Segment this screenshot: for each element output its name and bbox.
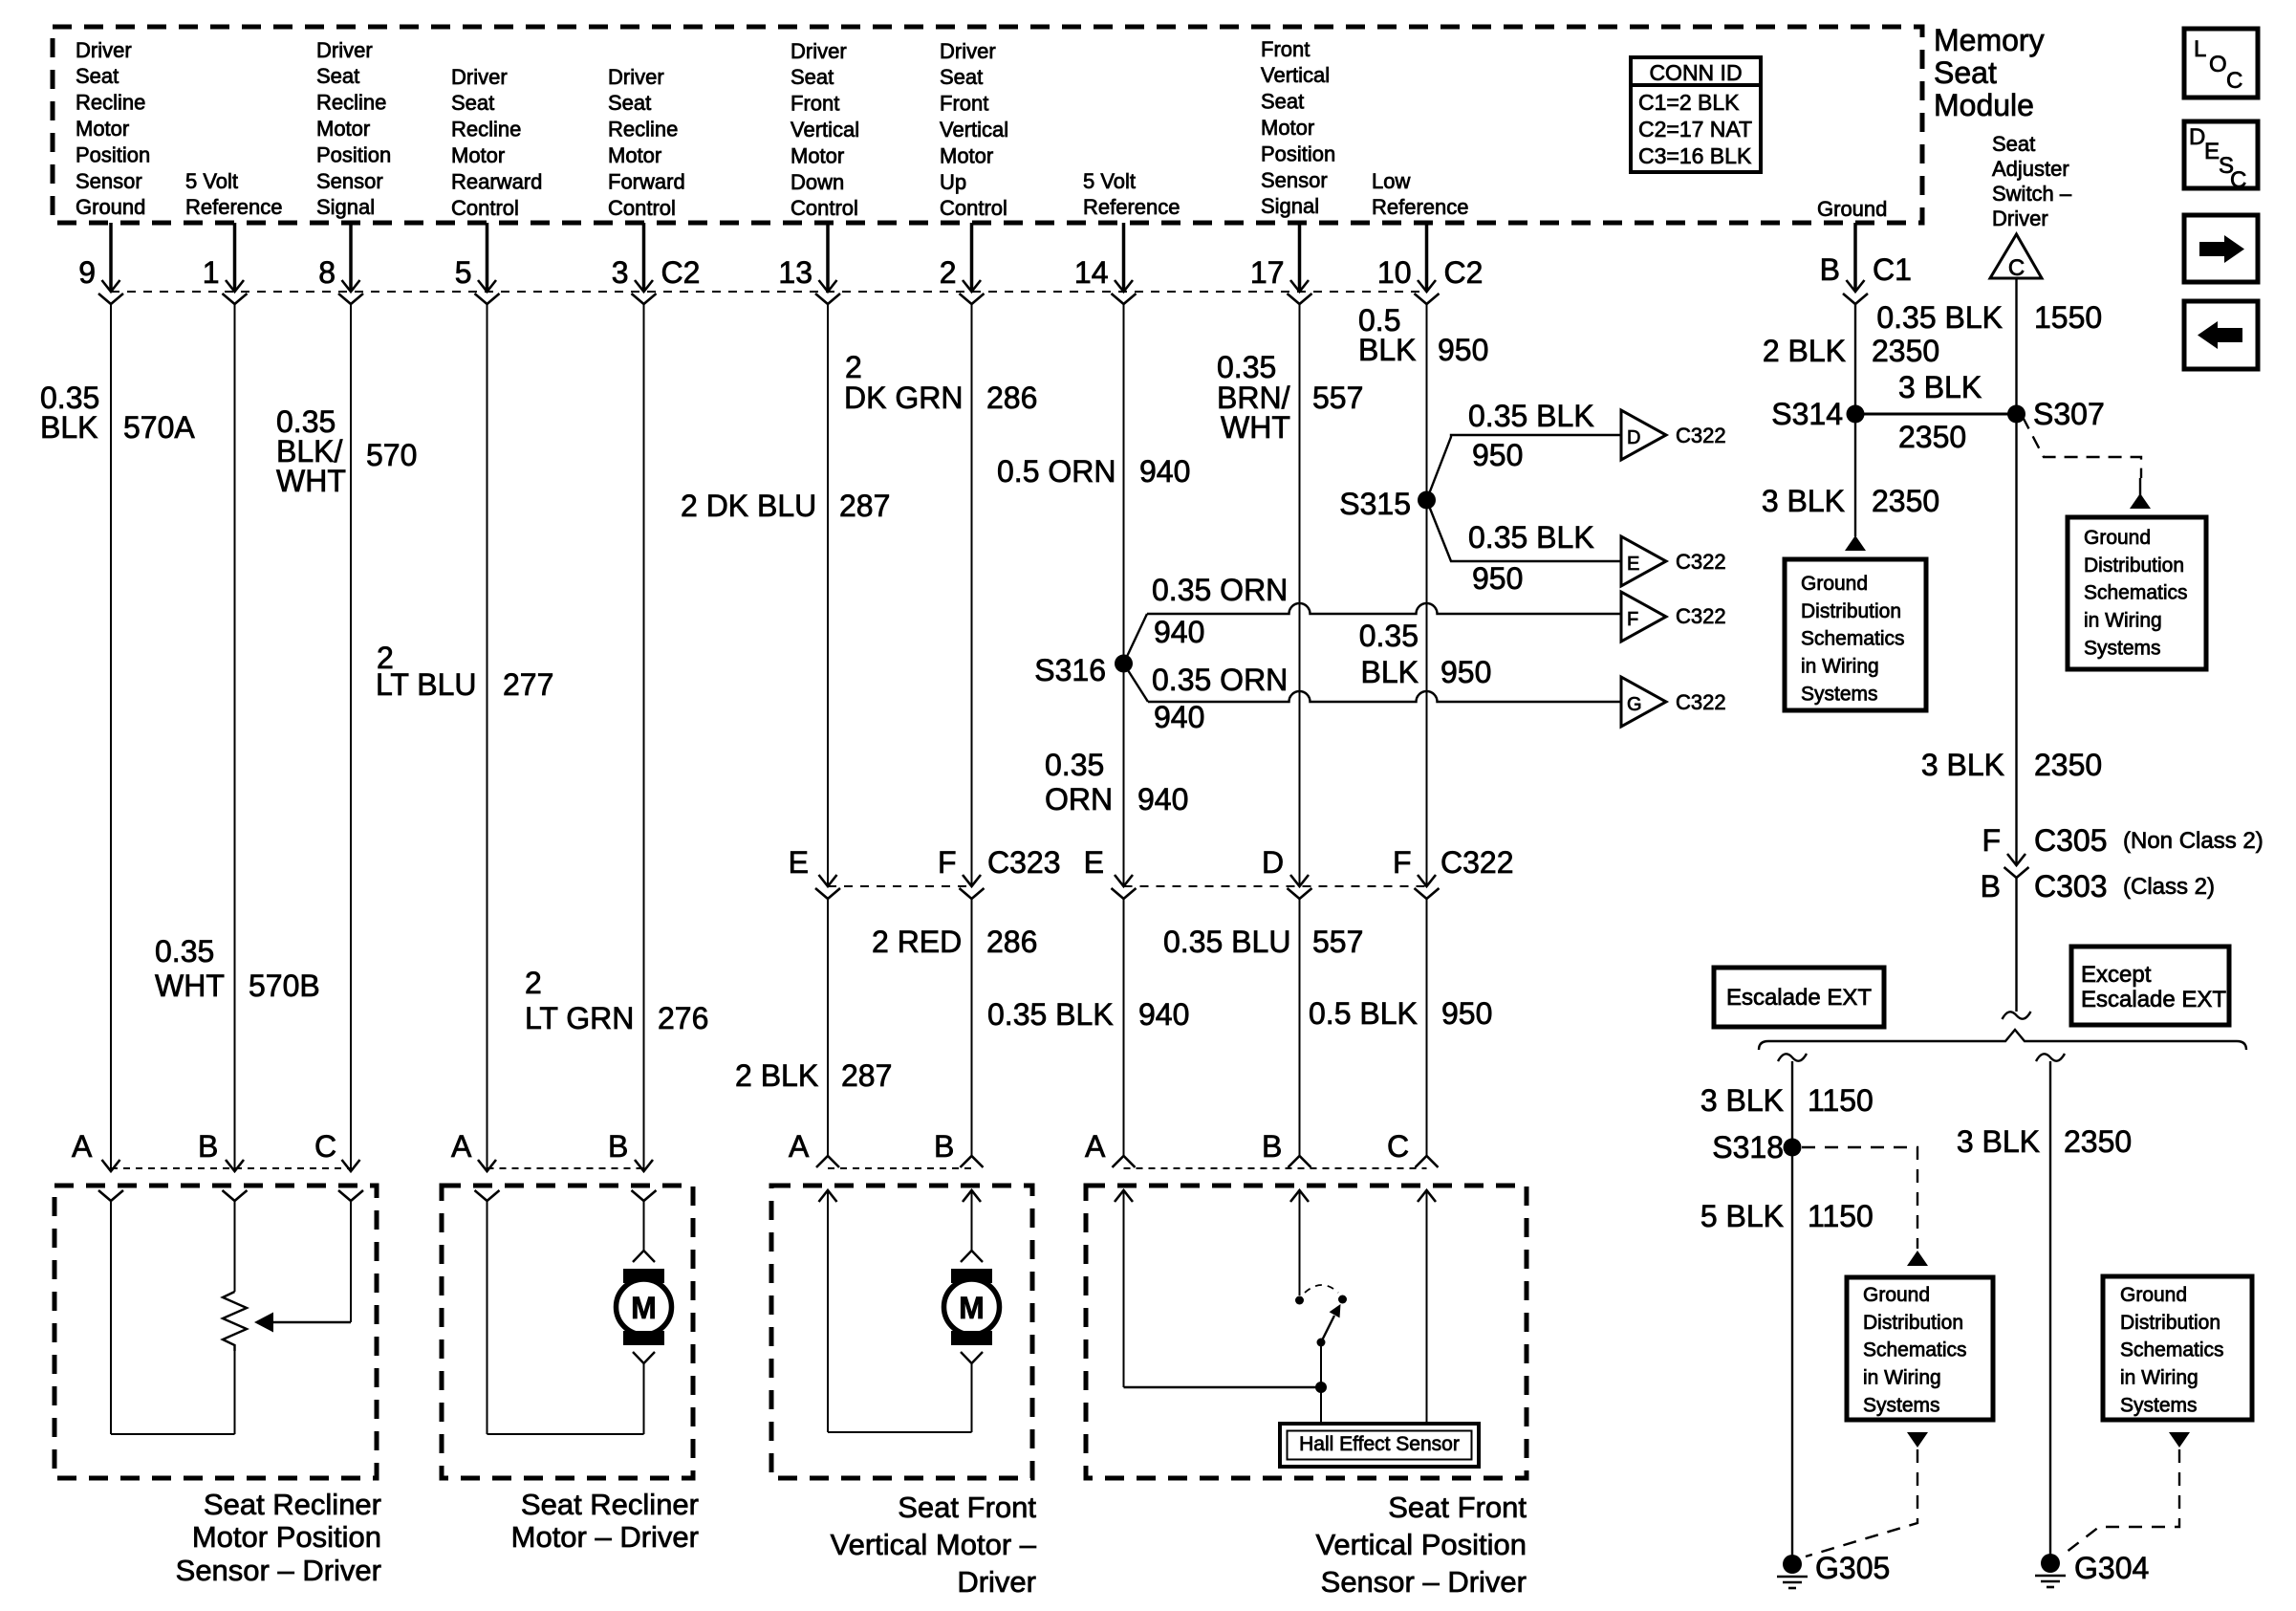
svg-text:Motor: Motor (608, 143, 661, 167)
svg-text:(Non Class 2): (Non Class 2) (2123, 828, 2264, 854)
inline connector C305 / C303 (2007, 854, 2025, 865)
svg-text:in Wiring: in Wiring (1863, 1367, 1941, 1389)
svg-text:Control: Control (451, 196, 519, 220)
wire circuit 286 lower (C323 to vertical motor B) (971, 899, 973, 1156)
module pin 9 wire stub and connector arrow (109, 223, 113, 290)
svg-text:557: 557 (1312, 925, 1363, 959)
svg-text:C323: C323 (987, 845, 1061, 880)
svg-text:0.5 ORN: 0.5 ORN (997, 454, 1116, 489)
wire 3 BLK 2350 branch top squiggle (2036, 1054, 2065, 1061)
svg-text:C303: C303 (2034, 869, 2108, 903)
motor M2 terminals chevron (961, 1251, 983, 1262)
wire resistor to bottom (234, 1351, 236, 1434)
svg-text:570B: 570B (249, 969, 320, 1003)
svg-text:Vertical: Vertical (1261, 63, 1330, 87)
svg-text:C2: C2 (1444, 255, 1484, 290)
svg-text:Seat: Seat (608, 91, 651, 115)
svg-text:Ground: Ground (2120, 1284, 2187, 1306)
svg-text:Control: Control (940, 196, 1007, 220)
svg-text:M: M (631, 1291, 657, 1325)
svg-text:0.35 ORN: 0.35 ORN (1152, 663, 1288, 697)
svg-text:2350: 2350 (1872, 334, 1939, 368)
svg-text:L: L (2194, 36, 2206, 62)
wire circuit 557 lower (C322 to position sensor B) (1299, 899, 1301, 1156)
svg-text:C: C (2230, 167, 2246, 193)
option split brace (1759, 1030, 2246, 1050)
svg-text:B: B (608, 1129, 628, 1164)
wire 3 BLK 2350 (to G304) (2049, 1061, 2051, 1563)
inline connector triangle D C322 (1621, 410, 1666, 460)
svg-text:Driver: Driver (316, 38, 373, 62)
module pin 10 wire stub and connector arrow (1425, 223, 1429, 290)
svg-text:C322: C322 (1676, 424, 1726, 447)
svg-text:Recline: Recline (316, 91, 386, 115)
wire circuit 570 (pin 8 to sensor C) (350, 304, 352, 1169)
wire circuit 950 lower (C322 to position sensor C) (1426, 899, 1428, 1156)
svg-text:Sensor: Sensor (316, 169, 383, 193)
wire circuit 940 upper (pin 14 through S316 to C322 E) (1123, 304, 1125, 884)
wire 0.35 BLK 950 branch to D C322 (1427, 435, 1622, 500)
svg-text:1550: 1550 (2034, 300, 2102, 335)
svg-text:5: 5 (455, 255, 472, 290)
svg-text:3: 3 (612, 255, 629, 290)
connector arrow at x=116 into component (102, 1160, 120, 1171)
svg-text:Seat: Seat (940, 65, 983, 89)
switch SW1 travel dashed arc (1305, 1285, 1338, 1293)
switch SW1 contact dot (1295, 1296, 1304, 1305)
svg-text:Distribution: Distribution (1801, 600, 1901, 622)
svg-text:0.35: 0.35 (155, 934, 214, 969)
svg-text:Driver: Driver (608, 65, 664, 89)
svg-text:286: 286 (986, 925, 1037, 959)
svg-text:940: 940 (1154, 700, 1204, 734)
svg-text:0.35 BLK: 0.35 BLK (1468, 399, 1594, 433)
svg-text:0.35 BLK: 0.35 BLK (1876, 300, 2003, 335)
svg-text:570A: 570A (123, 410, 195, 445)
svg-text:Low: Low (1372, 169, 1410, 193)
connector arrow at x=673.5 into component (635, 1160, 653, 1171)
svg-text:0.35 ORN: 0.35 ORN (1152, 573, 1288, 607)
wire circuit 557 upper (pin 17 to C322 D) (1299, 304, 1301, 884)
module pin 8 wire stub and connector arrow (349, 223, 353, 290)
svg-text:17: 17 (1250, 255, 1285, 290)
C323 pin E arrow (819, 875, 837, 886)
svg-text:Seat: Seat (316, 64, 359, 88)
svg-text:C2: C2 (661, 255, 701, 290)
svg-text:F: F (1982, 823, 2001, 858)
svg-text:Sensor – Driver: Sensor – Driver (1321, 1565, 1527, 1599)
svg-text:950: 950 (1441, 996, 1492, 1031)
svg-text:Ground: Ground (1817, 197, 1887, 221)
svg-text:(Class 2): (Class 2) (2123, 874, 2215, 900)
svg-text:Schematics: Schematics (1801, 628, 1905, 650)
svg-text:14: 14 (1074, 255, 1109, 290)
svg-text:0.35: 0.35 (1359, 619, 1419, 653)
svg-text:A: A (1085, 1129, 1106, 1164)
svg-text:0.35: 0.35 (1045, 748, 1104, 782)
wire circuit 287 lower (C323 to vertical motor A) (827, 899, 829, 1156)
svg-text:5 BLK: 5 BLK (1700, 1199, 1784, 1233)
svg-text:C305: C305 (2034, 823, 2108, 858)
wire junction to hall sensor (1320, 1387, 1322, 1426)
dashed reference below box to G304 (2169, 1432, 2190, 1448)
svg-text:B: B (1262, 1129, 1282, 1164)
svg-text:C322: C322 (1440, 845, 1514, 880)
svg-text:WHT: WHT (1221, 410, 1290, 445)
component connector dashed line (recliner motor) (487, 1167, 644, 1169)
svg-text:5 Volt: 5 Volt (1083, 169, 1136, 193)
svg-text:3 BLK: 3 BLK (1700, 1083, 1784, 1118)
svg-text:Motor: Motor (1261, 116, 1314, 140)
svg-text:WHT: WHT (276, 464, 346, 498)
svg-text:Reference: Reference (185, 195, 283, 219)
component connector dashed line (vertical position sensor) (1124, 1167, 1427, 1169)
splice S315 (1418, 491, 1436, 510)
svg-text:Sensor: Sensor (1261, 168, 1328, 192)
svg-text:LT GRN: LT GRN (525, 1001, 634, 1035)
wire inside motor pin A (487, 1201, 488, 1434)
connector chevron at x=1175.5 from component (1113, 1156, 1136, 1167)
svg-text:C1=2 BLK: C1=2 BLK (1638, 90, 1740, 115)
component box: Seat Front Vertical Motor - Driver (771, 1186, 1032, 1478)
svg-text:0.35: 0.35 (1217, 350, 1276, 384)
wire inside sensor pin A (110, 1201, 112, 1434)
svg-text:277: 277 (503, 667, 553, 702)
svg-text:Schematics: Schematics (2120, 1339, 2224, 1361)
svg-text:Seat: Seat (791, 65, 834, 89)
svg-text:2 RED: 2 RED (872, 925, 962, 959)
wire inside position sensor pin A (1123, 1190, 1125, 1387)
svg-text:Position: Position (1261, 142, 1335, 165)
svg-text:Driver: Driver (1992, 207, 2048, 230)
svg-text:in Wiring: in Wiring (2120, 1367, 2199, 1389)
ground distribution reference box (right of S307) (2068, 517, 2206, 669)
ground G304 (2041, 1554, 2060, 1573)
svg-text:Ground: Ground (1863, 1284, 1930, 1306)
svg-text:Systems: Systems (1863, 1394, 1940, 1416)
svg-text:2350: 2350 (2034, 748, 2102, 782)
svg-text:Driver: Driver (451, 65, 508, 89)
svg-text:Hall Effect Sensor: Hall Effect Sensor (1299, 1433, 1460, 1455)
inline connector C323 dashed line (828, 885, 972, 887)
svg-text:A: A (72, 1129, 93, 1164)
svg-text:0.35 BLK: 0.35 BLK (1468, 520, 1594, 555)
wiper arrow into resistor (254, 1313, 273, 1333)
svg-text:2350: 2350 (1872, 484, 1939, 518)
resistor R1 position sensor element (223, 1292, 247, 1351)
Escalade EXT option box (1714, 968, 1884, 1027)
svg-text:ORN: ORN (1045, 782, 1113, 816)
DESC button (2184, 121, 2258, 188)
wire inside position sensor pin B to switch contact (1299, 1190, 1301, 1295)
wire 0.35 BLK 1550 (switch C to S307) (2015, 278, 2017, 414)
svg-text:E: E (2204, 139, 2220, 164)
svg-text:Down: Down (791, 170, 844, 194)
svg-text:Forward: Forward (608, 169, 685, 193)
connector arrow at x=245.5 into component (226, 1160, 244, 1171)
svg-text:Distribution: Distribution (2120, 1312, 2220, 1334)
svg-text:940: 940 (1139, 454, 1190, 489)
connector C2 dashed line (111, 291, 1427, 293)
svg-text:Except: Except (2081, 962, 2152, 988)
wire circuit 287 upper (pin 13 to C323 E) (827, 304, 829, 884)
svg-text:Seat Recliner: Seat Recliner (204, 1488, 381, 1521)
svg-text:Vertical Position: Vertical Position (1315, 1528, 1527, 1561)
wire 3 BLK 1150 (to S318) (1791, 1061, 1793, 1147)
svg-text:Motor: Motor (316, 117, 370, 141)
svg-text:2: 2 (525, 966, 542, 1000)
svg-text:Motor: Motor (76, 117, 129, 141)
svg-text:Seat: Seat (1934, 55, 1997, 90)
inline connector C322 dashed line (1124, 885, 1427, 887)
module pin 3 wire stub and connector arrow (642, 223, 646, 290)
svg-text:D: D (2189, 124, 2205, 150)
dashed reference from S307 to ground distribution box (2023, 417, 2141, 478)
svg-text:G305: G305 (1815, 1551, 1890, 1585)
svg-text:Rearward: Rearward (451, 169, 542, 193)
svg-text:Vertical: Vertical (940, 118, 1008, 142)
svg-text:C: C (314, 1129, 336, 1164)
svg-text:C: C (2008, 255, 2025, 281)
switch SW1 arm with arrow (1321, 1316, 1334, 1342)
splice S307 (2007, 405, 2025, 424)
wire 5 BLK 1150 (S318 to G305) (1791, 1147, 1793, 1564)
svg-text:Reference: Reference (1372, 195, 1469, 219)
splice S314 (1847, 405, 1865, 424)
svg-text:940: 940 (1138, 997, 1189, 1032)
svg-text:Vertical Motor –: Vertical Motor – (831, 1528, 1037, 1561)
svg-text:C3=16 BLK: C3=16 BLK (1638, 143, 1752, 168)
wire circuit 286 upper (pin 2 to C323 F) (971, 304, 973, 884)
svg-text:Systems: Systems (2084, 637, 2161, 659)
svg-text:950: 950 (1438, 333, 1488, 367)
connector C seat adjuster switch triangle (1990, 234, 2042, 278)
svg-text:Position: Position (316, 142, 391, 166)
junction node (1315, 1382, 1327, 1393)
svg-text:in Wiring: in Wiring (2084, 610, 2162, 632)
svg-text:Escalade EXT: Escalade EXT (2081, 987, 2226, 1012)
svg-text:A: A (789, 1129, 810, 1164)
inline connector triangle F C322 (1621, 592, 1666, 642)
wire motor B to bottom (643, 1363, 645, 1434)
svg-text:3 BLK: 3 BLK (1921, 748, 2004, 782)
splice S316 (1115, 655, 1133, 673)
svg-text:0.5 BLK: 0.5 BLK (1309, 996, 1418, 1031)
wire circuit 940 lower (C322 to position sensor A) (1123, 899, 1125, 1156)
svg-text:C: C (2226, 68, 2242, 94)
svg-text:C322: C322 (1676, 604, 1726, 628)
svg-text:BLK: BLK (40, 410, 97, 445)
svg-text:10: 10 (1377, 255, 1412, 290)
module pin 1 wire stub and connector arrow (233, 223, 237, 290)
wire 0.35 BLK 950 branch to E C322 (1427, 500, 1622, 561)
wire 3 BLK 2350 (S314 down to ground distribution) (1854, 414, 1856, 536)
splice S318 (1784, 1139, 1802, 1157)
svg-text:CONN ID: CONN ID (1649, 60, 1742, 85)
connector arrow at x=367 into component (342, 1160, 360, 1171)
svg-text:Driver: Driver (76, 38, 132, 62)
wire bottom link A to B (111, 1433, 235, 1435)
svg-text:Control: Control (608, 196, 676, 220)
module pin 13 wire stub and connector arrow (826, 223, 830, 290)
svg-text:Motor – Driver: Motor – Driver (511, 1520, 699, 1554)
svg-text:Systems: Systems (1801, 683, 1878, 705)
svg-text:276: 276 (658, 1001, 708, 1035)
wire 3 BLK 2350 (S307 down) (2015, 414, 2017, 863)
svg-text:Control: Control (791, 196, 858, 220)
svg-text:Recline: Recline (76, 91, 145, 115)
svg-text:Driver: Driver (957, 1565, 1036, 1599)
svg-text:Ground: Ground (2084, 527, 2151, 549)
svg-text:C322: C322 (1676, 690, 1726, 714)
svg-text:S315: S315 (1339, 487, 1411, 521)
svg-text:M: M (959, 1291, 985, 1325)
svg-text:LT BLU: LT BLU (376, 667, 477, 702)
component connector dashed line (sensor driver) (111, 1167, 351, 1169)
svg-text:G: G (1627, 694, 1642, 715)
svg-text:950: 950 (1472, 561, 1523, 596)
svg-text:E: E (789, 845, 809, 880)
motor M2 Seat Front Vertical Motor (951, 1269, 992, 1283)
svg-text:Ground: Ground (1801, 573, 1868, 595)
svg-text:C: C (1387, 1129, 1409, 1164)
component box: Seat Recliner Motor Position Sensor - Driver (54, 1186, 377, 1478)
svg-text:F: F (1627, 609, 1638, 630)
svg-text:Seat Recliner: Seat Recliner (521, 1488, 699, 1521)
svg-text:Recline: Recline (608, 118, 678, 142)
inline connector triangle E C322 (1621, 536, 1666, 586)
svg-text:B: B (1820, 252, 1840, 287)
hall effect sensor block (1280, 1424, 1479, 1467)
svg-text:940: 940 (1154, 615, 1204, 649)
wire 2 BLK 2350 (module ground to S314) (1854, 304, 1856, 414)
svg-text:Distribution: Distribution (1863, 1312, 1963, 1334)
svg-text:DK GRN: DK GRN (844, 381, 963, 415)
back arrow button (2184, 301, 2258, 369)
svg-text:Sensor: Sensor (76, 169, 142, 193)
svg-text:BLK: BLK (1361, 655, 1419, 689)
svg-text:Sensor – Driver: Sensor – Driver (176, 1554, 381, 1587)
C323 pin F arrow (963, 875, 981, 886)
svg-text:Switch –: Switch – (1992, 182, 2072, 206)
module pin 5 wire stub and connector arrow (486, 223, 489, 290)
connector arrow at x=509.5 into component (478, 1160, 496, 1171)
svg-text:950: 950 (1472, 438, 1523, 472)
module U1 Memory Seat Module dashed box (53, 27, 1922, 223)
svg-text:287: 287 (839, 489, 890, 523)
wire circuit 570A (pin 9 to sensor A) (110, 304, 112, 1169)
wire below C303 (2015, 878, 2017, 1012)
ground distribution reference box (below S314) (1785, 559, 1926, 710)
svg-text:Seat: Seat (451, 91, 494, 115)
svg-text:Seat Front: Seat Front (1388, 1491, 1527, 1524)
svg-text:570: 570 (366, 438, 417, 472)
svg-text:Position: Position (76, 142, 150, 166)
svg-text:B: B (198, 1129, 218, 1164)
svg-text:Front: Front (791, 92, 839, 116)
svg-text:950: 950 (1440, 655, 1491, 689)
switch SW1 pivot dot (1317, 1339, 1326, 1347)
svg-text:3 BLK: 3 BLK (1957, 1124, 2040, 1159)
svg-text:Motor: Motor (451, 143, 505, 167)
svg-text:9: 9 (78, 255, 96, 290)
svg-text:Vertical: Vertical (791, 118, 859, 142)
svg-text:Distribution: Distribution (2084, 555, 2184, 577)
svg-text:F: F (1393, 845, 1412, 880)
svg-text:5 Volt: 5 Volt (185, 169, 238, 193)
svg-text:287: 287 (841, 1058, 892, 1093)
svg-text:Schematics: Schematics (2084, 582, 2188, 604)
svg-text:Reference: Reference (1083, 195, 1180, 219)
svg-text:1: 1 (203, 255, 220, 290)
motor M2 lower chevron (961, 1352, 983, 1363)
C322 pin E arrow (1115, 875, 1133, 886)
wire 3 BLK 2350 (S314 to S307) (1855, 413, 2017, 416)
wire circuit 570B (pin 1 to sensor B) (234, 304, 236, 1169)
svg-text:Up: Up (940, 170, 966, 194)
svg-text:in Wiring: in Wiring (1801, 656, 1879, 678)
svg-text:Seat: Seat (76, 64, 119, 88)
motor M1 lower chevron (633, 1352, 655, 1363)
svg-text:1150: 1150 (1808, 1083, 1874, 1118)
module pin 14 wire stub and connector arrow (1122, 223, 1126, 290)
svg-text:2 BLK: 2 BLK (735, 1058, 818, 1093)
svg-text:D: D (1262, 845, 1284, 880)
svg-text:E: E (1627, 554, 1639, 575)
wire inside sensor pin B to resistor (234, 1201, 236, 1292)
svg-text:Seat: Seat (1261, 90, 1304, 114)
svg-text:Driver: Driver (940, 39, 996, 63)
svg-text:Memory: Memory (1934, 23, 2045, 57)
svg-text:557: 557 (1312, 381, 1363, 415)
wire circuit 950 upper (pin 10 through S315 to C322 F) (1426, 304, 1428, 884)
svg-text:O: O (2209, 52, 2227, 77)
inline connector triangle G C322 (1621, 677, 1666, 727)
svg-text:C2=17 NAT: C2=17 NAT (1638, 117, 1752, 142)
svg-text:F: F (938, 845, 957, 880)
ground distribution reference box (Except Escalade EXT) (2103, 1276, 2252, 1420)
ground G305 (1783, 1555, 1802, 1574)
svg-text:C1: C1 (1873, 252, 1912, 287)
connector ID table CONN ID (1631, 57, 1761, 172)
wire circuit 277 (pin 5 to motor A) (487, 304, 488, 1169)
svg-text:WHT: WHT (155, 969, 225, 1003)
ground distribution reference box (Escalade EXT) (1847, 1277, 1993, 1420)
wire inside motor pin B (643, 1201, 645, 1251)
wire pivot to junction (1320, 1342, 1322, 1387)
connector chevron at x=866 from component (816, 1156, 839, 1167)
connector chevron at x=1359.5 from component (1289, 1156, 1311, 1167)
motor M1 terminals chevron (633, 1251, 655, 1262)
svg-text:2350: 2350 (2064, 1124, 2132, 1159)
svg-text:13: 13 (778, 255, 812, 290)
svg-text:A: A (451, 1129, 472, 1164)
svg-text:S307: S307 (2033, 397, 2105, 431)
wire 0.35 ORN 940 branch to F C322 (1124, 614, 1148, 664)
svg-text:286: 286 (986, 381, 1037, 415)
svg-text:2: 2 (940, 255, 957, 290)
svg-text:0.35 BLU: 0.35 BLU (1163, 925, 1290, 959)
svg-text:E: E (1084, 845, 1104, 880)
svg-text:Signal: Signal (1261, 194, 1319, 218)
Except Escalade EXT option box (2071, 947, 2229, 1025)
svg-text:8: 8 (318, 255, 336, 290)
svg-text:2350: 2350 (1898, 420, 1966, 454)
component connector dashed line (vertical motor) (828, 1167, 972, 1169)
connector chevron at x=1492.5 from component (1416, 1156, 1439, 1167)
module pin B (Ground) wire stub and connector C1 (1853, 223, 1857, 290)
C322 pin D arrow (1290, 875, 1309, 886)
